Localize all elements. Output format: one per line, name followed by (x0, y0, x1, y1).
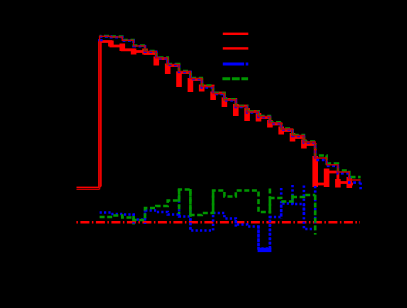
thick red data histogram (main panel) (77, 186, 100, 188)
red first-bin vertical (98, 41, 101, 187)
legend: red theory line (223, 47, 249, 49)
legend: red data line (223, 33, 249, 35)
legend: blue dashed line (223, 63, 249, 66)
green theory histogram (main panel) (100, 36, 361, 177)
blue theory histogram (main panel) (100, 37, 361, 183)
red data error bars (108, 41, 114, 47)
blue ratio steps (100, 204, 316, 249)
blue end drop (359, 183, 362, 191)
red dash-dot unity line (ratio panel) (76, 221, 360, 224)
blue ratio error bars (132, 214, 135, 226)
legend: green dashed line (222, 77, 248, 80)
green ratio steps (100, 190, 316, 221)
blue start dash (98, 39, 103, 41)
blue dip bottom thick (258, 248, 272, 252)
green ratio error bars (132, 216, 135, 225)
green corner blocks at step edges (167, 60, 170, 64)
thin red theory histogram (main panel) (77, 188, 100, 190)
